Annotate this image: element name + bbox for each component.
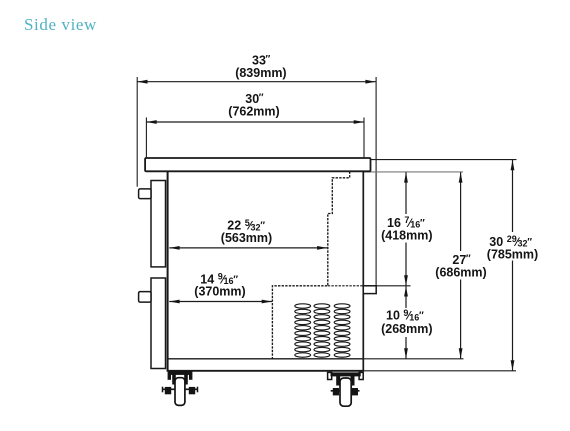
svg-text:(785mm): (785mm) <box>487 247 538 261</box>
svg-text:(370mm): (370mm) <box>194 285 245 299</box>
svg-text:(268mm): (268mm) <box>381 322 432 336</box>
svg-text:(563mm): (563mm) <box>221 231 272 245</box>
svg-text:(762mm): (762mm) <box>228 104 279 118</box>
svg-text:(418mm): (418mm) <box>381 228 432 242</box>
svg-text:(839mm): (839mm) <box>235 66 286 80</box>
svg-text:(686mm): (686mm) <box>435 266 486 280</box>
